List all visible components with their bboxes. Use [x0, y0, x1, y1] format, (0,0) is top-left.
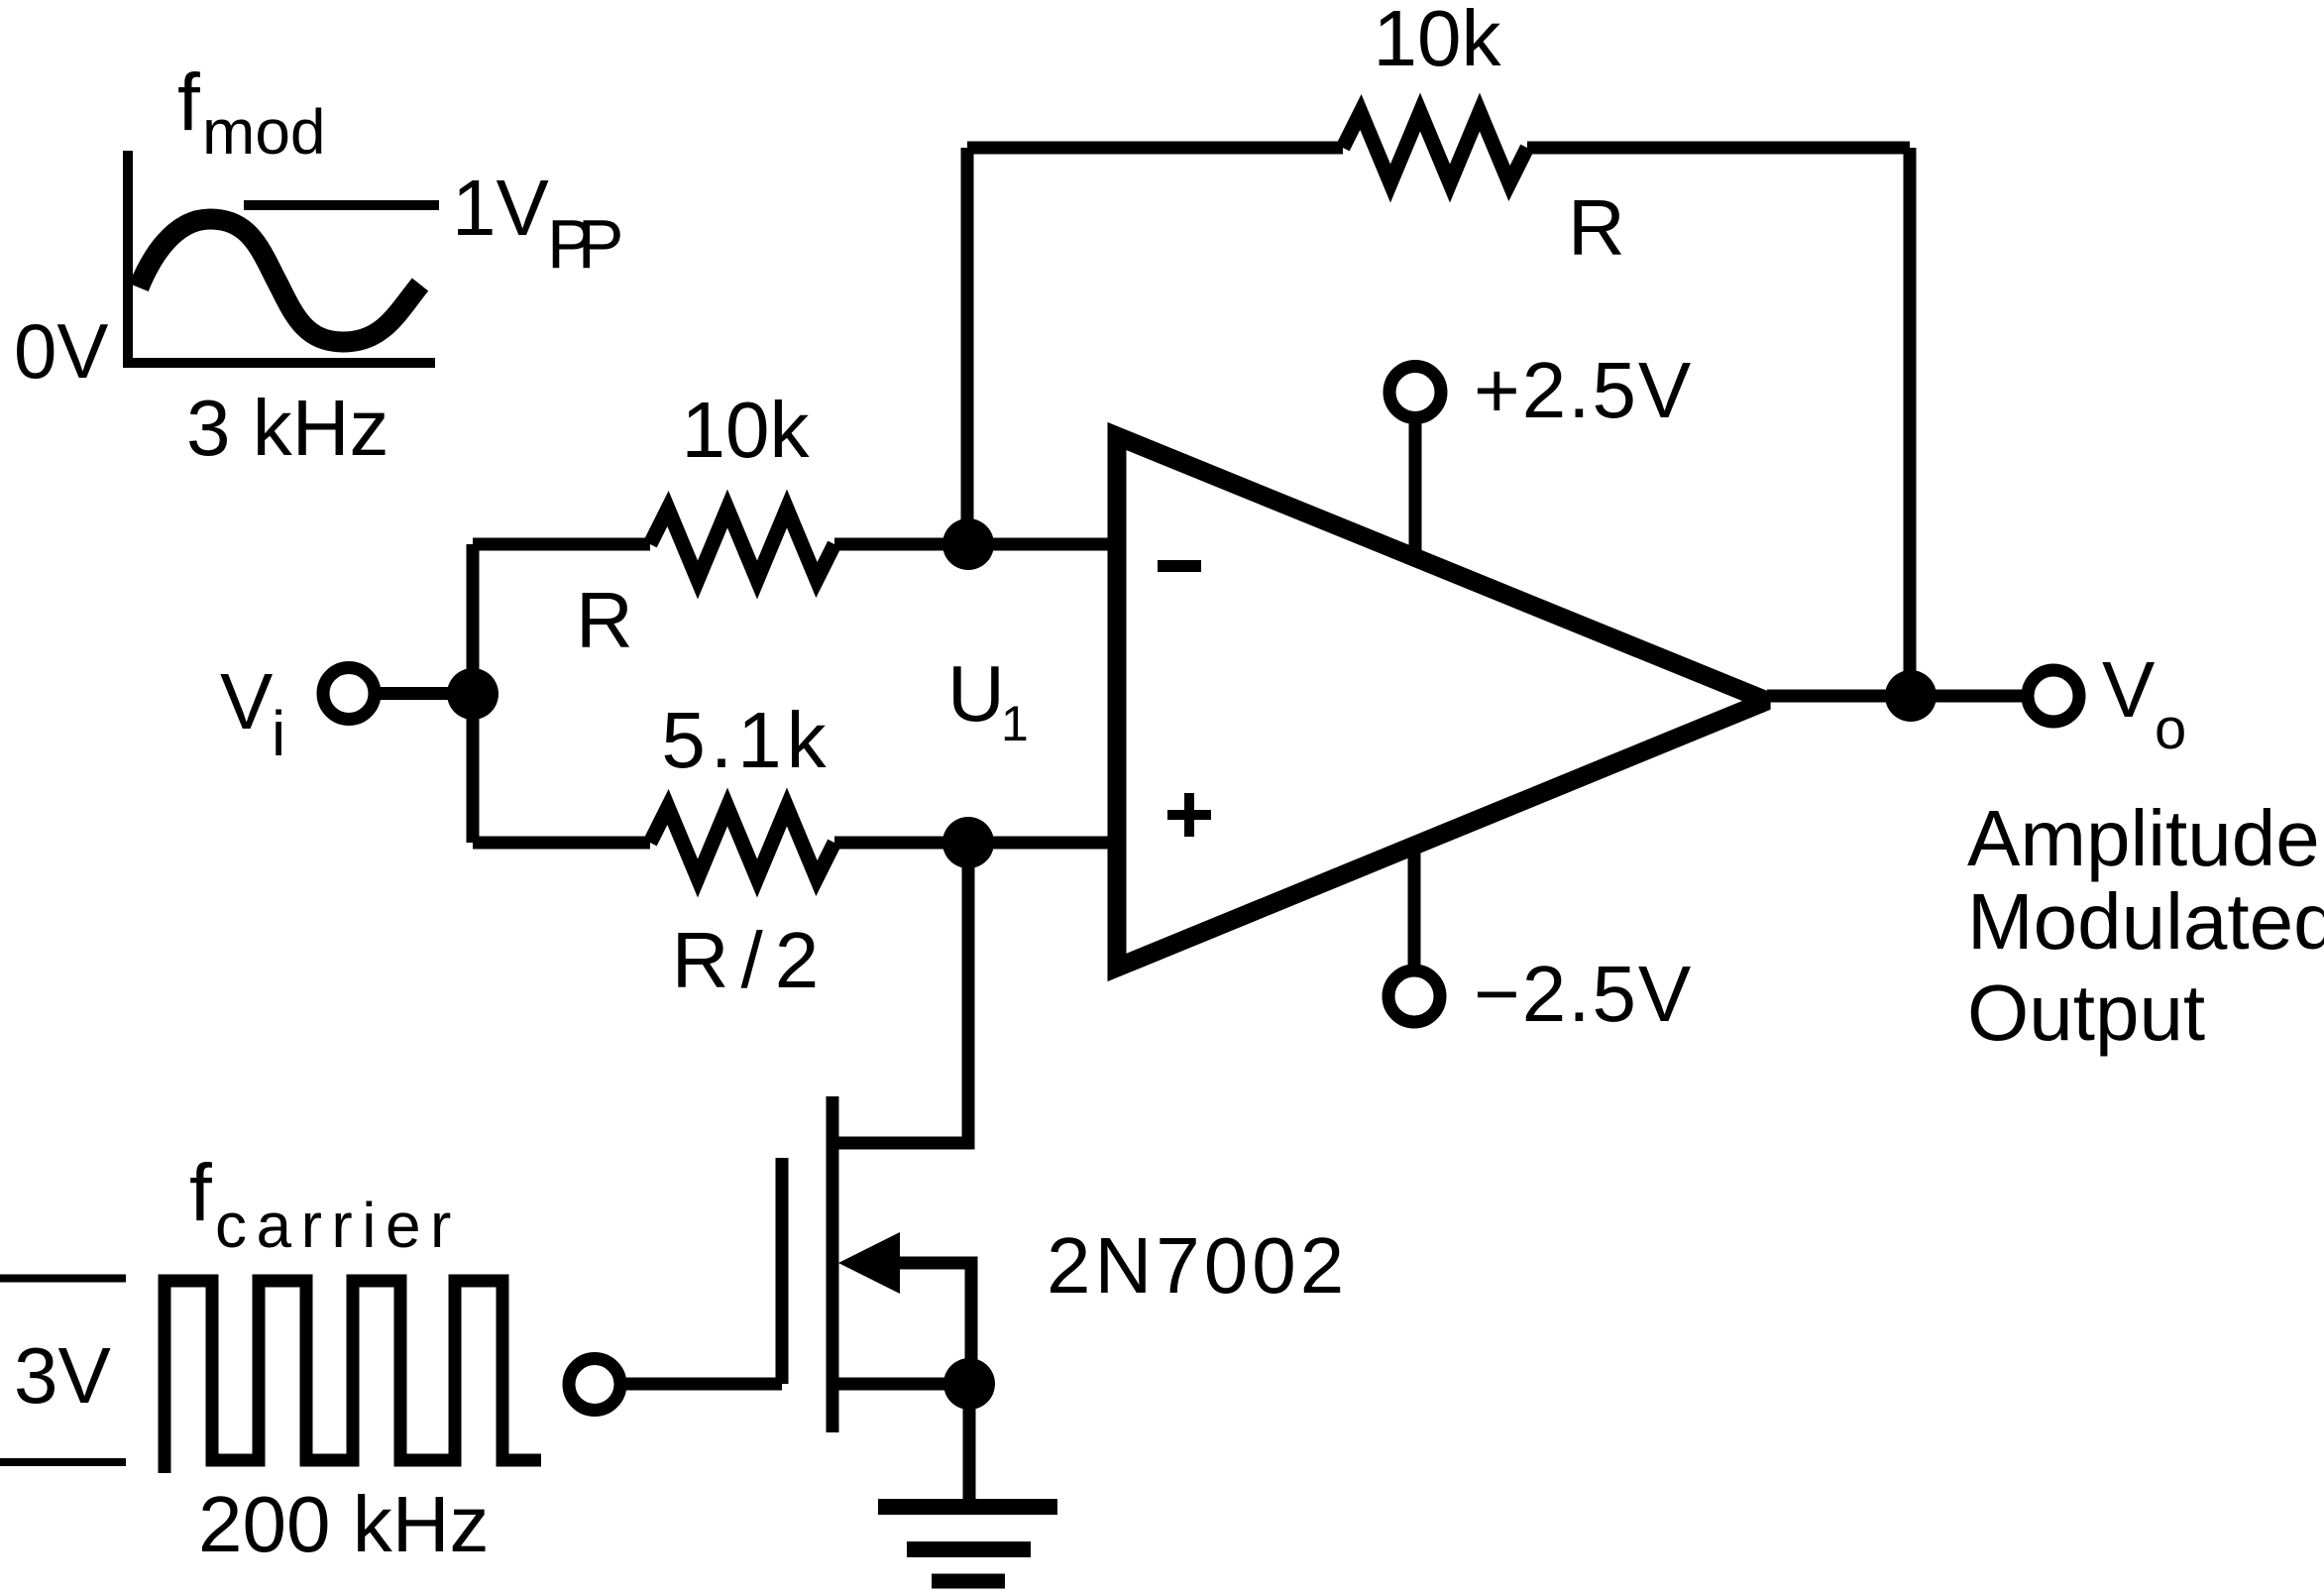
junction Vi [447, 668, 498, 720]
wire gate [626, 1378, 782, 1391]
wire feedback left vertical [961, 148, 974, 544]
transistor Q1 body wire [897, 1263, 971, 1384]
wire Vi to junction [380, 687, 473, 700]
svg-text:5.1k: 5.1k [661, 696, 830, 784]
wire feedback right vertical [1904, 148, 1917, 696]
terminal +2.5V [1389, 367, 1441, 418]
wire -2.5V stub [1408, 845, 1421, 965]
wire source stub [832, 1378, 969, 1391]
svg-text:3 kHz: 3 kHz [186, 384, 389, 472]
fmod sine wave [139, 219, 420, 342]
terminal Vi [323, 668, 375, 720]
svg-text:f: f [177, 57, 200, 148]
junction noninverting input [942, 817, 994, 868]
wire output [1767, 690, 2026, 703]
svg-text:+2.5V: +2.5V [1474, 346, 1693, 434]
svg-text:10k: 10k [1374, 0, 1502, 82]
resistor R feedback 10k [1343, 112, 1527, 183]
transistor Q1 body arrow [838, 1232, 900, 1294]
svg-text:10k: 10k [682, 386, 811, 474]
wire inverting branch right [834, 538, 1117, 551]
svg-text:o: o [2155, 697, 2186, 761]
svg-text:Modulated: Modulated [1967, 877, 2324, 966]
label amplitude modulated output [1967, 794, 2324, 1057]
1Vpp label [452, 164, 620, 283]
svg-text:200 kHz: 200 kHz [198, 1480, 489, 1568]
node Vi label [220, 657, 285, 769]
svg-text:0V: 0V [14, 307, 108, 395]
junction inverting input [942, 518, 994, 570]
svg-text:i: i [272, 698, 285, 769]
wire source to ground [963, 1384, 976, 1507]
svg-text:−2.5V: −2.5V [1474, 950, 1693, 1038]
node fcarrier label [189, 1148, 461, 1261]
ground [878, 1507, 1057, 1581]
label U1 [947, 649, 1029, 751]
svg-text:U: U [947, 649, 1005, 738]
svg-text:V: V [2102, 645, 2156, 734]
fmod waveform axes [128, 151, 435, 363]
svg-text:1: 1 [1001, 696, 1029, 751]
wire feedback top left [967, 142, 1343, 155]
3V reference bottom line [0, 1458, 126, 1466]
junction output [1885, 670, 1937, 722]
op-amp U1 triangle [1117, 436, 1767, 968]
op-amp plus sign [1167, 793, 1211, 837]
terminal carrier input [569, 1359, 620, 1411]
terminal Vo [2028, 670, 2079, 722]
svg-text:R: R [1568, 183, 1625, 272]
svg-text:R/2: R/2 [672, 916, 831, 1004]
svg-text:Amplitude: Amplitude [1967, 794, 2320, 882]
node Vo label [2102, 645, 2186, 761]
1Vpp level line [244, 200, 439, 210]
svg-text:3V: 3V [14, 1331, 111, 1420]
wire feedback top right [1527, 142, 1910, 155]
node fmod label [177, 57, 326, 168]
wire +2.5V stub [1409, 423, 1422, 558]
wire drain [832, 843, 968, 1143]
carrier square wave [165, 1281, 541, 1473]
svg-text:2N7002: 2N7002 [1047, 1221, 1348, 1310]
svg-text:mod: mod [202, 96, 326, 168]
svg-text:Output: Output [1967, 969, 2205, 1057]
wire Vi vertical [467, 544, 480, 843]
junction source [943, 1358, 995, 1410]
resistor R/2 5.1k [650, 807, 834, 878]
wire inverting branch left [473, 538, 650, 551]
op-amp minus sign [1158, 560, 1201, 572]
svg-text:carrier: carrier [215, 1190, 461, 1261]
transistor Q1 channel bar [827, 1096, 839, 1432]
svg-text:1V: 1V [452, 164, 549, 252]
resistor R input 10k [650, 509, 834, 580]
transistor Q1 gate bar [776, 1158, 789, 1384]
svg-text:R: R [576, 576, 633, 664]
wire noninverting branch right [834, 837, 1117, 850]
3V reference top line [0, 1275, 126, 1283]
svg-text:V: V [220, 657, 274, 745]
wire noninverting branch left [473, 837, 650, 850]
svg-text:f: f [189, 1148, 212, 1238]
terminal -2.5V [1388, 970, 1440, 1022]
